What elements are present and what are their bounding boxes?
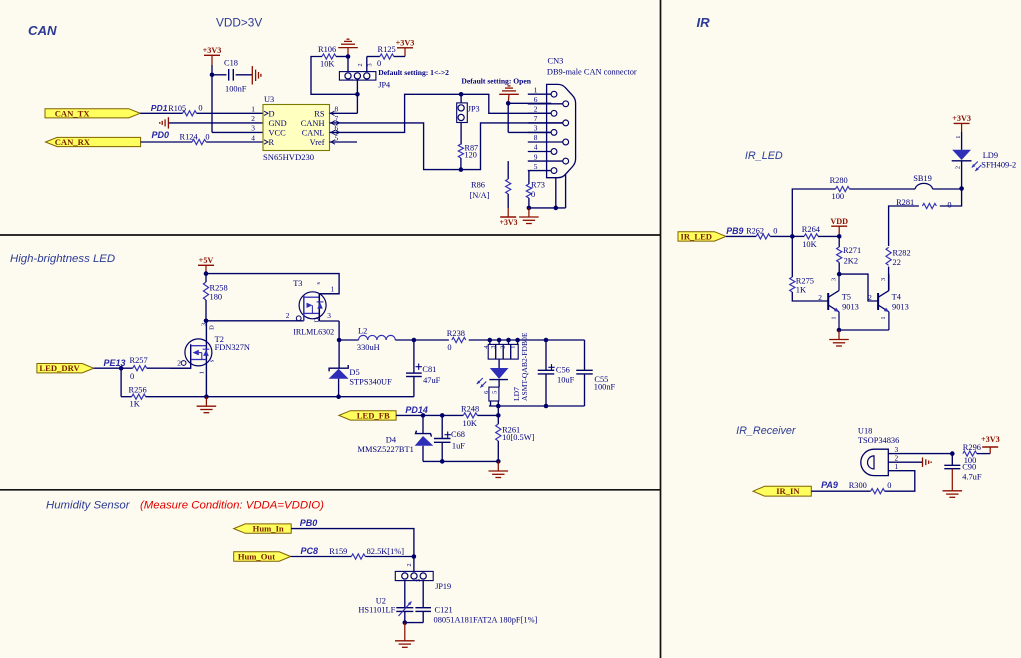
svg-text:9013: 9013 bbox=[842, 303, 859, 312]
svg-text:330uH: 330uH bbox=[357, 343, 380, 352]
svg-text:R280: R280 bbox=[830, 176, 848, 185]
svg-text:C121: C121 bbox=[435, 605, 453, 614]
svg-text:100nF: 100nF bbox=[594, 382, 616, 391]
svg-text:CAN: CAN bbox=[28, 23, 57, 38]
svg-text:2: 2 bbox=[406, 563, 413, 566]
wire R296 to +3V3 bbox=[977, 447, 990, 454]
svg-text:VCC: VCC bbox=[269, 128, 287, 137]
LED LD7 diode bbox=[489, 359, 508, 387]
wire LED_FB net bbox=[396, 414, 498, 416]
svg-text:CN3: CN3 bbox=[548, 57, 564, 66]
svg-text:PD0: PD0 bbox=[152, 130, 170, 140]
wire zener ground rail bbox=[423, 460, 498, 462]
junction T5 collector bbox=[837, 272, 842, 277]
svg-text:3: 3 bbox=[327, 311, 331, 320]
svg-text:R125: R125 bbox=[378, 45, 396, 54]
resistor R105 bbox=[168, 103, 202, 116]
junction R248/R261/LD7 bbox=[496, 413, 501, 418]
svg-text:2: 2 bbox=[534, 105, 538, 114]
svg-text:0: 0 bbox=[773, 227, 777, 236]
junction D4 tap bbox=[421, 413, 426, 418]
svg-text:1: 1 bbox=[396, 579, 403, 582]
svg-text:+3V3: +3V3 bbox=[981, 435, 1000, 444]
title IR_LED bbox=[745, 150, 783, 162]
junction PE13/R257/R256 bbox=[119, 366, 124, 371]
junction JP3 pin1 on CANL bbox=[459, 92, 464, 97]
junction IR_LED node bbox=[790, 234, 795, 239]
wire R282 to T4 collector bbox=[888, 267, 890, 291]
svg-text:22: 22 bbox=[893, 258, 901, 267]
svg-text:8: 8 bbox=[534, 133, 538, 142]
power +3V3 (R296) bbox=[981, 435, 1000, 447]
svg-text:47uF: 47uF bbox=[423, 376, 441, 385]
junction D5 anode bbox=[336, 394, 341, 399]
svg-text:+5V: +5V bbox=[199, 256, 214, 265]
svg-text:0: 0 bbox=[531, 190, 535, 199]
svg-text:82.5K[1%]: 82.5K[1%] bbox=[367, 547, 405, 556]
wire +3V3 to VCC bbox=[212, 65, 263, 132]
svg-text:100: 100 bbox=[832, 192, 845, 201]
svg-text:[N/A]: [N/A] bbox=[470, 191, 490, 200]
svg-text:10K: 10K bbox=[463, 419, 477, 428]
svg-text:120: 120 bbox=[465, 151, 477, 160]
svg-text:1: 1 bbox=[348, 78, 355, 81]
svg-text:D5: D5 bbox=[349, 368, 359, 377]
wire R87 bottom stem bbox=[460, 158, 462, 170]
resistor R238 bbox=[414, 329, 488, 352]
net label PC8 bbox=[301, 546, 319, 556]
LED module LD7 pin box bottom bbox=[483, 387, 499, 406]
svg-text:VDD>3V: VDD>3V bbox=[216, 16, 262, 30]
resistor R125 bbox=[377, 45, 396, 68]
wire R73 bottom / shield rail bbox=[529, 175, 566, 208]
IC U18 TSOP34836 bbox=[858, 426, 900, 475]
ground (U3 GND pin, rotated) bbox=[160, 117, 263, 128]
junction JP4 pin1 bbox=[346, 54, 351, 59]
svg-text:Default setting: 1<->2: Default setting: 1<->2 bbox=[378, 68, 449, 77]
svg-text:2: 2 bbox=[357, 63, 364, 66]
svg-text:ASMT-QAB2-FDB0E: ASMT-QAB2-FDB0E bbox=[520, 332, 529, 401]
wire emitter ground rail bbox=[839, 329, 889, 331]
svg-text:R275: R275 bbox=[796, 277, 814, 286]
ground (U18 pin2, rotated) bbox=[900, 457, 931, 467]
wire CAN_TX net bbox=[140, 112, 263, 114]
svg-text:6: 6 bbox=[483, 391, 490, 394]
svg-text:C90: C90 bbox=[962, 463, 976, 472]
resistor R282 bbox=[886, 247, 911, 267]
wire R258 to gate node bbox=[205, 300, 207, 321]
svg-text:1: 1 bbox=[251, 105, 255, 114]
svg-text:FDN327N: FDN327N bbox=[215, 343, 250, 352]
wire SB19 to LD9 node bbox=[933, 188, 962, 190]
capacitor C18 bbox=[212, 59, 252, 94]
junction R87 bottom bbox=[459, 167, 464, 172]
junction LD7 pins bbox=[488, 338, 549, 343]
svg-text:R106: R106 bbox=[318, 45, 336, 54]
ground (T5/T4) bbox=[829, 330, 849, 346]
svg-text:4: 4 bbox=[251, 133, 255, 142]
svg-text:0: 0 bbox=[130, 372, 134, 381]
transistor T5 9013 bbox=[818, 274, 859, 330]
diode D5 STPS340UF bbox=[329, 340, 392, 397]
wire ground to DB9 pin6 and pin3 bbox=[508, 103, 551, 132]
svg-text:0: 0 bbox=[887, 481, 891, 490]
svg-text:C56: C56 bbox=[556, 365, 570, 374]
label measure condition bbox=[140, 500, 324, 512]
wire R256 branch bbox=[121, 368, 132, 397]
junction SW node bbox=[337, 338, 342, 343]
svg-text:1: 1 bbox=[880, 316, 887, 319]
resistor R86 bbox=[470, 161, 511, 208]
junction shield/R73 bbox=[527, 206, 558, 211]
ground (humidity) bbox=[395, 623, 415, 648]
transistor T3 IRLML6302 bbox=[286, 279, 335, 337]
svg-text:IR_LED: IR_LED bbox=[680, 231, 712, 241]
svg-text:U2: U2 bbox=[376, 596, 386, 605]
port CAN_RX bbox=[46, 137, 141, 147]
resistor R256 bbox=[129, 386, 147, 409]
svg-text:SB19: SB19 bbox=[913, 174, 932, 183]
LED LD9 SFH409-2 bbox=[952, 136, 1017, 189]
svg-text:4.7uF: 4.7uF bbox=[962, 472, 982, 481]
port Hum_In bbox=[234, 524, 292, 534]
ground (C18) bbox=[252, 66, 261, 84]
svg-text:2: 2 bbox=[818, 293, 822, 302]
svg-text:R282: R282 bbox=[893, 249, 911, 258]
svg-text:High-brightness LED: High-brightness LED bbox=[10, 253, 115, 265]
junction C68 tap bbox=[440, 413, 445, 418]
svg-text:R300: R300 bbox=[849, 481, 867, 490]
power +3V3 (R125) bbox=[396, 39, 415, 57]
svg-text:DB9-male CAN connector: DB9-male CAN connector bbox=[547, 68, 637, 77]
svg-text:Vref: Vref bbox=[310, 138, 325, 147]
svg-text:SN65HVD230: SN65HVD230 bbox=[263, 152, 314, 162]
section divider vertical bbox=[660, 0, 662, 658]
section divider horizontal lower bbox=[0, 489, 661, 491]
svg-text:8: 8 bbox=[335, 105, 339, 114]
wire T3 source top rail bbox=[206, 274, 339, 294]
capacitor C56 bbox=[538, 340, 575, 406]
ground (JP4) bbox=[338, 39, 358, 56]
wire JP4 pin3 to R125 bbox=[367, 57, 380, 72]
svg-text:1: 1 bbox=[199, 371, 206, 374]
wire JP19 pin2 stem bbox=[413, 557, 415, 572]
net label PD1 bbox=[151, 103, 168, 113]
LED LD7 emission arrows bbox=[477, 378, 487, 388]
net label PD0 bbox=[152, 130, 170, 140]
wire Hum_Out net bbox=[291, 556, 414, 558]
svg-text:10K: 10K bbox=[802, 240, 816, 249]
svg-text:2: 2 bbox=[499, 346, 506, 349]
label ASMT-QAB2 rotated bbox=[520, 332, 529, 401]
svg-text:D: D bbox=[269, 109, 275, 118]
svg-text:5: 5 bbox=[534, 162, 538, 171]
svg-text:08051A181FAT2A 180pF[1%]: 08051A181FAT2A 180pF[1%] bbox=[434, 615, 538, 624]
svg-text:+3V3: +3V3 bbox=[952, 114, 971, 123]
DB9 pin stubs and numbers bbox=[528, 85, 563, 170]
wire ground rail LED bbox=[146, 396, 339, 398]
svg-text:LD9: LD9 bbox=[983, 151, 998, 160]
svg-text:T5: T5 bbox=[842, 293, 851, 302]
wire LED_DRV net bbox=[94, 367, 191, 369]
resistor R271 bbox=[837, 236, 862, 265]
junction C90 node bbox=[950, 451, 955, 456]
resistor R280 bbox=[830, 176, 850, 201]
diode D4 MMSZ5227BT1 (zener) bbox=[358, 415, 434, 461]
power +3V3 (LD9) bbox=[952, 114, 971, 132]
net label PD14 bbox=[405, 405, 428, 415]
port LED_FB bbox=[339, 410, 396, 420]
svg-text:MMSZ5227BT1: MMSZ5227BT1 bbox=[358, 445, 414, 454]
svg-text:IR_LED: IR_LED bbox=[745, 150, 783, 162]
svg-text:IR_IN: IR_IN bbox=[776, 486, 800, 496]
svg-text:0: 0 bbox=[377, 59, 381, 68]
resistor R106 bbox=[318, 45, 336, 68]
svg-text:4: 4 bbox=[534, 143, 538, 152]
ground (C90) bbox=[943, 491, 963, 498]
junction output node bbox=[412, 338, 417, 343]
capacitor C81 bbox=[339, 340, 441, 397]
svg-text:CANH: CANH bbox=[301, 119, 325, 128]
svg-text:JP19: JP19 bbox=[435, 582, 451, 591]
svg-text:3: 3 bbox=[830, 278, 837, 281]
junction C18/+3V3/VCC bbox=[210, 73, 215, 78]
svg-text:2: 2 bbox=[177, 359, 181, 368]
wire R281 to R282 bbox=[889, 206, 919, 246]
label VDD>3V bbox=[216, 16, 262, 30]
wire L2 to output node bbox=[395, 339, 414, 341]
wire T3 source lead bbox=[319, 293, 339, 295]
ground (T2 source) bbox=[197, 397, 217, 413]
wire pin1 to R300 bbox=[885, 471, 915, 492]
transistor T4 9013 bbox=[868, 274, 909, 330]
svg-text:GND: GND bbox=[269, 119, 287, 128]
svg-text:VDD: VDD bbox=[830, 217, 848, 226]
port Hum_Out bbox=[234, 552, 291, 562]
svg-text:R159: R159 bbox=[329, 547, 347, 556]
svg-text:R262: R262 bbox=[746, 227, 764, 236]
svg-text:T4: T4 bbox=[892, 293, 902, 302]
power VDD bbox=[830, 217, 848, 236]
svg-text:R73: R73 bbox=[531, 180, 545, 189]
svg-text:1: 1 bbox=[534, 85, 538, 94]
junction LD9 cathode node bbox=[959, 186, 964, 191]
IC U3 SN65HVD230 bbox=[251, 95, 339, 162]
svg-text:IR_Receiver: IR_Receiver bbox=[736, 425, 796, 437]
svg-text:0: 0 bbox=[205, 133, 209, 142]
svg-text:3: 3 bbox=[200, 323, 207, 326]
resistor R124 bbox=[180, 132, 210, 144]
junction R261 bottom / ground bbox=[496, 459, 501, 464]
wire R106 left loop to JP4 pin2 bbox=[311, 57, 357, 95]
svg-text:1: 1 bbox=[331, 284, 335, 293]
svg-text:1K: 1K bbox=[796, 286, 806, 295]
svg-text:180: 180 bbox=[210, 293, 223, 302]
junction +5V/T3 source bbox=[204, 271, 209, 276]
svg-text:Hum_In: Hum_In bbox=[253, 524, 284, 534]
wire SW to L2 bbox=[339, 339, 358, 341]
capacitor C68 bbox=[434, 415, 465, 461]
title High-brightness LED bbox=[10, 253, 115, 265]
wire R271 to T5 collector / T4 base bbox=[839, 262, 878, 301]
connector CN3 DB9 bbox=[547, 57, 637, 178]
svg-text:R264: R264 bbox=[802, 225, 821, 234]
port IR_IN bbox=[753, 486, 811, 496]
resistor R73 bbox=[526, 180, 545, 199]
net label PE13 bbox=[104, 358, 126, 368]
junction humidity node bbox=[412, 554, 417, 559]
svg-text:Humidity Sensor: Humidity Sensor bbox=[46, 500, 131, 512]
svg-text:U3: U3 bbox=[264, 95, 274, 104]
svg-text:Hum_Out: Hum_Out bbox=[238, 552, 275, 562]
svg-text:R: R bbox=[269, 138, 275, 147]
jumper JP4 bbox=[339, 63, 390, 89]
wire IR_LED net bbox=[726, 235, 792, 237]
junction T5 emitter bbox=[837, 328, 842, 333]
svg-text:1K: 1K bbox=[130, 400, 140, 409]
LED module LD7 top rail bbox=[488, 339, 584, 341]
svg-text:9013: 9013 bbox=[892, 303, 909, 312]
wire T3 drain to SW node bbox=[319, 321, 339, 340]
net label PB9 bbox=[726, 226, 743, 236]
section divider horizontal upper bbox=[0, 234, 661, 236]
svg-text:R296: R296 bbox=[963, 443, 981, 452]
svg-text:+3V3: +3V3 bbox=[203, 46, 222, 55]
wire CAN_RX net bbox=[141, 141, 263, 143]
svg-text:1: 1 bbox=[955, 136, 962, 139]
wire R275 to T5 base bbox=[792, 292, 828, 301]
wire CANH net bbox=[330, 123, 563, 170]
resistor R264 bbox=[792, 225, 839, 249]
junction JP4 pin2 net bbox=[355, 92, 360, 97]
power +3V3 (R86) bbox=[499, 208, 517, 227]
wire JP3 pin2 to R87 bbox=[460, 123, 462, 145]
title CAN bbox=[28, 23, 57, 38]
junction R258/T3 gate/T2 drain bbox=[204, 319, 209, 324]
svg-text:TSOP34836: TSOP34836 bbox=[858, 436, 899, 445]
svg-text:RS: RS bbox=[314, 109, 325, 118]
wire pin3 to R296 node bbox=[900, 453, 952, 455]
svg-text:0: 0 bbox=[947, 201, 951, 210]
LD7 bottom rail bbox=[489, 405, 585, 407]
svg-text:R271: R271 bbox=[843, 246, 861, 255]
svg-text:L2: L2 bbox=[358, 326, 367, 335]
svg-text:100nF: 100nF bbox=[225, 85, 247, 94]
svg-text:10[0.5W]: 10[0.5W] bbox=[502, 433, 535, 442]
svg-text:(Measure Condition: VDDA=VDDIO: (Measure Condition: VDDA=VDDIO) bbox=[140, 500, 324, 512]
svg-text:3: 3 bbox=[534, 124, 538, 133]
wire humidity ground rail bbox=[405, 622, 423, 624]
inductor L2 bbox=[357, 326, 395, 352]
wire JP3 pin1 stem bbox=[460, 94, 462, 103]
svg-text:LED_FB: LED_FB bbox=[357, 410, 390, 420]
wire R106/ground/JP4 pin1 bbox=[336, 57, 348, 72]
title IR_Receiver bbox=[736, 425, 796, 437]
svg-text:D4: D4 bbox=[386, 435, 397, 444]
solder bridge SB19 bbox=[913, 174, 932, 189]
svg-text:U18: U18 bbox=[858, 426, 872, 435]
wire IR_IN net bbox=[811, 490, 870, 492]
resistor R87 bbox=[458, 143, 478, 159]
svg-text:PB9: PB9 bbox=[726, 226, 743, 236]
svg-text:STPS340UF: STPS340UF bbox=[349, 377, 392, 386]
power +5V bbox=[198, 256, 214, 274]
port LED_DRV bbox=[37, 363, 94, 373]
wire R261 to ground rail bbox=[497, 441, 499, 461]
label LD7 rotated bbox=[512, 387, 521, 401]
wire CANL net bbox=[330, 94, 552, 132]
transistor T2 FDN327N bbox=[170, 321, 250, 397]
wire JP4 pin2 to RS bbox=[330, 80, 358, 113]
svg-text:0: 0 bbox=[447, 343, 451, 352]
svg-text:2: 2 bbox=[251, 114, 255, 123]
wire DB9 pin5 to R73 bbox=[528, 171, 530, 184]
label default setting 1-2 bbox=[378, 68, 449, 77]
wire LD7 pin5 down to feedback node bbox=[497, 406, 499, 424]
svg-text:R256: R256 bbox=[129, 386, 147, 395]
svg-text:SFH409-2: SFH409-2 bbox=[981, 161, 1016, 170]
resistor R248 bbox=[461, 404, 479, 428]
svg-text:9: 9 bbox=[534, 152, 538, 161]
svg-text:5: 5 bbox=[491, 391, 498, 394]
jumper JP3 bbox=[457, 103, 480, 123]
svg-text:R105: R105 bbox=[168, 104, 186, 113]
svg-text:D: D bbox=[209, 325, 216, 330]
svg-text:PA9: PA9 bbox=[821, 480, 838, 490]
svg-text:C81: C81 bbox=[422, 365, 436, 374]
svg-text:2: 2 bbox=[954, 166, 961, 169]
svg-text:CANL: CANL bbox=[302, 128, 325, 137]
junction VDD/R271 bbox=[837, 234, 842, 239]
resistor R281 bbox=[896, 198, 951, 210]
svg-text:CAN_RX: CAN_RX bbox=[55, 137, 91, 147]
resistor R159 bbox=[329, 547, 404, 559]
capacitor C121 bbox=[415, 581, 537, 625]
net label PA9 bbox=[821, 480, 838, 490]
svg-text:R86: R86 bbox=[471, 180, 485, 189]
wire Hum_In net bbox=[291, 529, 414, 557]
ground (DB9 bottom) bbox=[519, 208, 539, 224]
svg-text:3: 3 bbox=[415, 579, 422, 582]
capacitor C90 bbox=[944, 454, 982, 491]
svg-text:0: 0 bbox=[198, 103, 202, 112]
svg-text:R248: R248 bbox=[461, 404, 479, 413]
svg-text:PC8: PC8 bbox=[301, 546, 319, 556]
svg-text:10uF: 10uF bbox=[557, 375, 575, 384]
svg-text:+3V3: +3V3 bbox=[499, 218, 517, 227]
svg-text:R238: R238 bbox=[447, 329, 465, 338]
resistor R275 bbox=[790, 236, 814, 294]
svg-text:1: 1 bbox=[895, 462, 899, 471]
svg-text:C68: C68 bbox=[451, 430, 465, 439]
svg-text:3: 3 bbox=[367, 63, 374, 66]
wire +5V node bbox=[205, 274, 207, 282]
svg-text:R124: R124 bbox=[180, 132, 199, 141]
svg-text:IRLML6302: IRLML6302 bbox=[293, 328, 334, 337]
resistor R261 bbox=[496, 424, 535, 442]
wire R280 to SB19 bbox=[850, 188, 916, 190]
svg-text:3: 3 bbox=[490, 346, 497, 349]
resistor R300 bbox=[849, 481, 892, 494]
svg-text:R258: R258 bbox=[210, 284, 228, 293]
svg-text:LED_DRV: LED_DRV bbox=[39, 363, 80, 373]
svg-text:JP4: JP4 bbox=[378, 80, 390, 89]
svg-text:3: 3 bbox=[880, 278, 887, 281]
ground (feedback) bbox=[489, 461, 509, 477]
junction humidity ground bbox=[403, 620, 408, 625]
wire T3 gate bbox=[206, 320, 304, 322]
wire R280 branch bbox=[792, 189, 835, 236]
